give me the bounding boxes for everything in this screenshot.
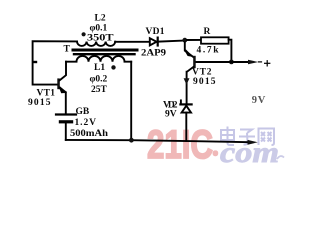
- svg-text:VT1: VT1: [37, 89, 56, 99]
- svg-text:φ0.1: φ0.1: [90, 24, 108, 34]
- svg-text:L2: L2: [95, 14, 106, 24]
- svg-text:L1: L1: [94, 63, 105, 73]
- svg-text:9V: 9V: [165, 110, 177, 120]
- svg-text:9015: 9015: [28, 98, 51, 108]
- svg-text:4.7k: 4.7k: [197, 46, 220, 56]
- svg-text:9V: 9V: [252, 95, 266, 106]
- svg-text:350T: 350T: [87, 34, 114, 44]
- svg-text:9015: 9015: [193, 77, 216, 87]
- svg-text:2AP9: 2AP9: [141, 49, 166, 59]
- svg-text:φ0.2: φ0.2: [90, 75, 108, 85]
- svg-text:R: R: [204, 27, 211, 37]
- svg-text:1.2V: 1.2V: [75, 118, 97, 128]
- svg-text:21IC: 21IC: [147, 123, 213, 167]
- svg-text:T: T: [64, 45, 71, 55]
- svg-text:GB: GB: [76, 107, 90, 117]
- svg-text:VT2: VT2: [192, 68, 212, 78]
- svg-text:25T: 25T: [91, 85, 108, 95]
- svg-text:VD1: VD1: [146, 27, 165, 37]
- svg-text:500mAh: 500mAh: [70, 129, 109, 139]
